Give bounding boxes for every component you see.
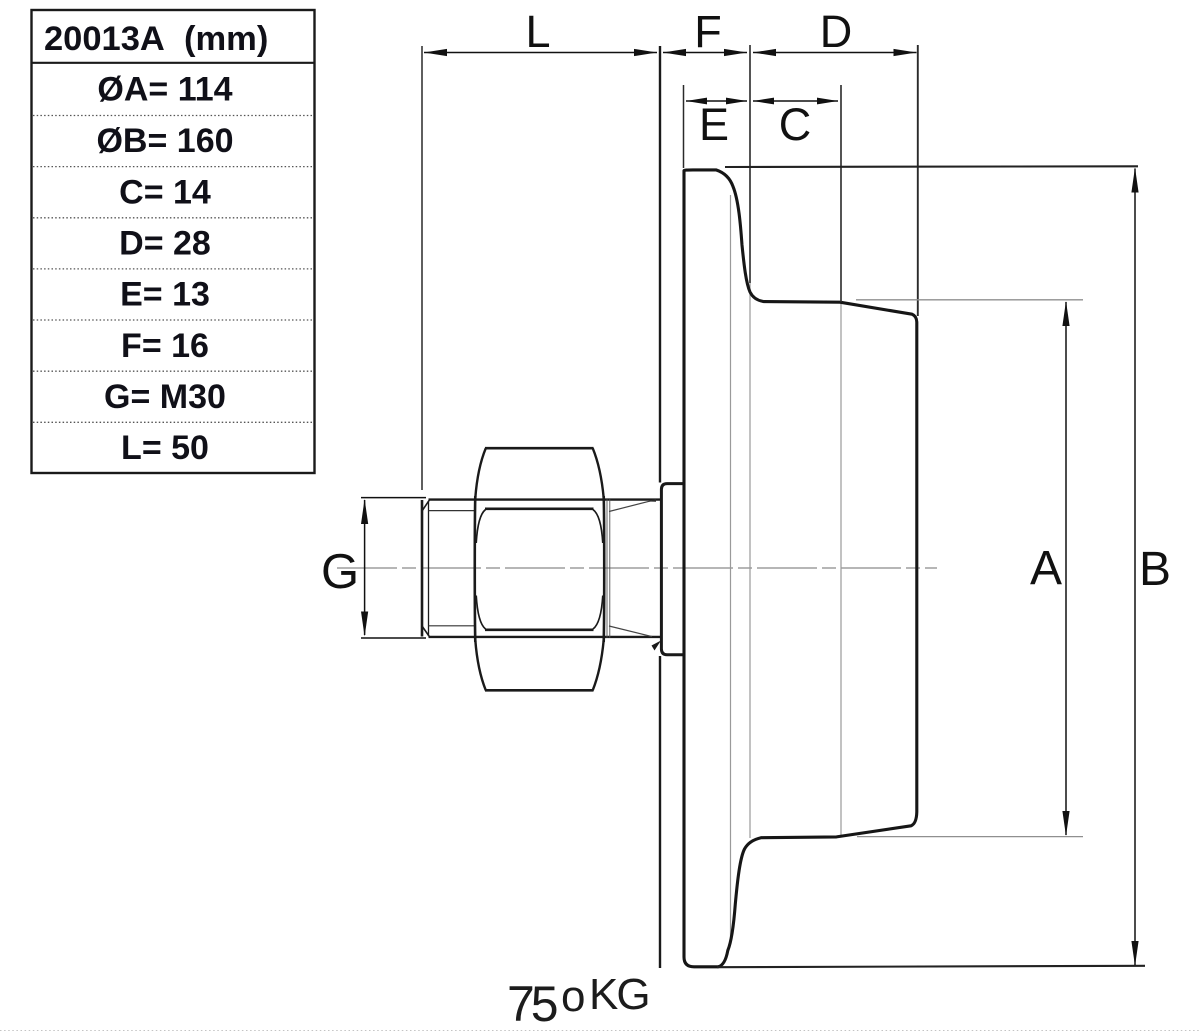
nut top cap flare right — [593, 448, 604, 498]
bolt thread root lines — [429, 510, 477, 512]
shaft between nut and hub boss — [607, 499, 661, 651]
svg-text:D= 28: D= 28 — [119, 225, 211, 263]
extension line at x=750 top — [749, 45, 751, 283]
svg-text:A: A — [1030, 542, 1062, 595]
nut bottom face — [485, 689, 594, 692]
nut facet wedge top-left — [476, 510, 485, 543]
extension line L left — [421, 46, 423, 490]
nut top face — [485, 447, 594, 450]
mounting plate edge line lower — [659, 656, 661, 968]
bottom faint dotted line — [0, 1030, 1200, 1032]
extension line E left (x=683.5) — [683, 85, 685, 168]
svg-text:20013A (mm): 20013A (mm) — [44, 20, 268, 58]
dimension C — [753, 98, 838, 105]
nut top cap flare left — [475, 448, 486, 498]
nut bottom cap flare right — [593, 640, 604, 690]
svg-text:L: L — [525, 6, 550, 57]
hex nut M30 — [475, 448, 604, 690]
wheel inner gray lines — [731, 195, 842, 944]
svg-text:E: E — [699, 99, 729, 150]
dimension D — [753, 49, 917, 56]
nut facet wedge bottom-right — [593, 596, 603, 630]
extension line D right (x=918) — [917, 45, 919, 316]
svg-text:C= 14: C= 14 — [119, 174, 211, 212]
dimension F — [663, 49, 747, 56]
thread runout diagonals — [609, 500, 653, 511]
table header text 20013A (mm) — [44, 20, 268, 467]
nut bottom cap flare left — [475, 640, 486, 690]
750KG load rating text — [0, 0, 1, 1]
bolt threaded stud — [422, 500, 660, 637]
thread end mark — [652, 641, 662, 651]
dimension B — [1131, 168, 1138, 967]
svg-text:F: F — [694, 6, 722, 57]
thread runout tip top — [648, 499, 656, 502]
svg-text:ØA= 114: ØA= 114 — [97, 71, 232, 109]
nut facet wedge bottom-left — [476, 596, 485, 630]
B bottom extension line — [717, 966, 1145, 967]
svg-text:G: G — [321, 545, 359, 599]
extension line C right (x=841) — [840, 85, 842, 302]
A top extension line (gray) — [856, 299, 1083, 301]
dimension A — [1062, 301, 1069, 836]
centerline (axis) — [337, 567, 937, 569]
mounting plate edge line upper — [659, 46, 661, 483]
svg-text:ØB= 160: ØB= 160 — [96, 122, 233, 160]
dimension L — [424, 49, 657, 56]
svg-text:F= 16: F= 16 — [121, 327, 209, 365]
B top extension line — [725, 165, 1138, 168]
nut chamfer line bottom — [485, 628, 594, 631]
table dotted row separators — [33, 116, 313, 423]
wheel profile — [684, 170, 917, 967]
nut chamfer line top — [485, 507, 594, 510]
dimension E — [686, 98, 747, 105]
svg-text:D: D — [820, 6, 853, 57]
nut side edge right — [602, 496, 605, 642]
hub boss — [661, 484, 683, 655]
A bottom extension line (gray) — [857, 836, 1083, 838]
nut side edge left — [473, 496, 476, 642]
svg-text:E= 13: E= 13 — [120, 276, 210, 314]
svg-text:G= M30: G= M30 — [104, 378, 226, 416]
dimension G — [361, 498, 426, 638]
svg-text:C: C — [779, 99, 812, 150]
svg-text:B: B — [1139, 543, 1171, 596]
nut facet wedge top-right — [593, 510, 603, 543]
dimension table frame — [32, 10, 315, 473]
svg-text:L= 50: L= 50 — [121, 429, 209, 467]
